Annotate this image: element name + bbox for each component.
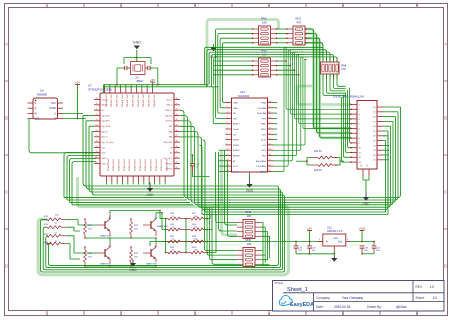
svg-text:GND: GND	[261, 103, 266, 105]
U9 wire left going down to bus	[28, 119, 41, 153]
U10 left pins lower wires joining verticals	[219, 149, 226, 151]
svg-text:31: 31	[176, 103, 178, 105]
highlighted net top-left route	[207, 20, 279, 87]
svg-text:1.0: 1.0	[430, 285, 435, 289]
svg-text:3: 3	[227, 112, 228, 114]
highlighted net loop left riser	[78, 177, 81, 207]
svg-text:26: 26	[361, 165, 363, 167]
svg-text:+3V3: +3V3	[359, 226, 366, 230]
RN8 bottom wires	[323, 74, 346, 96]
capacitor C18 104	[295, 242, 297, 246]
svg-text:CAN_Tx: CAN_Tx	[165, 109, 173, 112]
svg-text:26: 26	[269, 112, 271, 114]
svg-text:6: 6	[227, 127, 228, 129]
svg-text:Your Company: Your Company	[342, 296, 363, 300]
svg-text:10K: 10K	[247, 214, 252, 218]
chip U10 SJA1000 body	[232, 98, 268, 172]
svg-text:A: A	[444, 42, 447, 47]
svg-text:OSC_IN/PD01: OSC_IN/PD01	[147, 95, 149, 109]
capacitor C15 left of crystal	[124, 66, 126, 70]
svg-text:27: 27	[269, 106, 271, 108]
svg-text:MMBT5551: MMBT5551	[157, 226, 169, 228]
svg-text:17: 17	[269, 159, 271, 161]
svg-text:CLK: CLK	[262, 134, 267, 136]
svg-text:47K: 47K	[297, 21, 302, 25]
grid interconnect verticals	[185, 219, 187, 253]
svg-text:MOD0: MOD0	[233, 124, 240, 126]
svg-text:VOUT1/PB02: VOUT1/PB02	[106, 159, 108, 172]
svg-text:VOUT1/PB02: VOUT1/PB02	[144, 159, 146, 172]
svg-text:OSC_IN/PD01: OSC_IN/PD01	[136, 95, 138, 109]
RN5 right pin wires down to loop	[261, 223, 263, 266]
svg-text:STM32F103C8T6: STM32F103C8T6	[88, 88, 112, 92]
svg-text:9: 9	[227, 143, 228, 145]
svg-text:12: 12	[96, 108, 98, 110]
svg-text:MOD2: MOD2	[233, 145, 240, 147]
transistor area junction dots	[84, 218, 86, 220]
svg-text:Spi_MOSI: Spi_MOSI	[102, 126, 112, 128]
U10 left pins	[226, 102, 232, 104]
svg-text:Spi_MSO: Spi_MSO	[102, 121, 111, 123]
svg-text:CAN_RST: CAN_RST	[163, 141, 173, 144]
svg-text:OSC_IN/PD01: OSC_IN/PD01	[110, 95, 112, 109]
svg-text:20: 20	[269, 143, 271, 145]
svg-text:LIN_Rx: LIN_Rx	[102, 99, 109, 101]
wire bus center horizontal bundle	[83, 115, 94, 117]
D-SUB right pin wires to bundle	[383, 106, 401, 108]
crystal X2 body	[131, 62, 146, 75]
resistor R24 2K2 vertical	[84, 250, 87, 262]
svg-text:23: 23	[269, 127, 271, 129]
svg-text:18: 18	[269, 154, 271, 156]
svg-text:GND: GND	[246, 189, 254, 193]
capacitor C16 right of crystal	[147, 66, 149, 70]
transistor Q1 MMBT5551	[104, 221, 106, 229]
resistor R21 2K2 vertical	[84, 222, 87, 234]
svg-text:18: 18	[96, 140, 98, 142]
chip U9 M95080 body	[33, 98, 58, 119]
RN1 right wires going down	[306, 29, 314, 42]
svg-text:24: 24	[269, 122, 271, 124]
svg-text:1/1: 1/1	[433, 296, 438, 300]
svg-text:Vcc1: Vcc1	[233, 166, 239, 168]
svg-text:11: 11	[96, 103, 98, 105]
svg-text:TxD: TxD	[102, 147, 106, 149]
svg-text:35: 35	[176, 124, 178, 126]
capacitor C19 10u	[361, 242, 363, 246]
svg-text:STU: STU	[262, 150, 267, 152]
svg-text:41: 41	[176, 156, 178, 158]
wire bus lines from U7 right side going down and right	[180, 107, 401, 198]
D-SUB left pins 1-13	[351, 104, 357, 106]
svg-text:A: A	[5, 42, 8, 47]
svg-text:MOD1: MOD1	[233, 140, 240, 142]
frame column ticks top/bottom	[46, 4, 48, 8]
svg-text:R11 40: R11 40	[314, 150, 322, 153]
RN6 left pin wires from bundle	[205, 208, 238, 251]
svg-text:15: 15	[96, 124, 98, 126]
wire D-SUB right rows 7-8 to bundle	[203, 140, 386, 212]
svg-text:42: 42	[176, 162, 178, 164]
svg-text:Drawn By:: Drawn By:	[367, 305, 382, 309]
power flag +5V near U7 top	[150, 81, 155, 83]
grid left wires to transistor collectors	[160, 211, 166, 219]
svg-text:VCC: VCC	[51, 102, 56, 105]
svg-text:11: 11	[227, 154, 229, 156]
svg-text:40: 40	[176, 151, 178, 153]
feeder verticals from horizontals down to D-SUB upper rows	[285, 47, 351, 109]
U7 top pins	[104, 88, 106, 94]
R11 R12 connection wires	[307, 158, 311, 162]
svg-text:D: D	[54, 118, 56, 121]
wire verticals x218-225 companions	[218, 152, 220, 228]
svg-text:RN8: RN8	[341, 64, 347, 68]
op chip U7 STM32F103C8T6 body	[100, 93, 174, 176]
gnd below U7	[149, 182, 151, 184]
svg-text:B: B	[5, 116, 8, 121]
svg-text:D-SUB_25PIN_FEMALE_RA: D-SUB_25PIN_FEMALE_RA	[333, 96, 364, 99]
svg-text:C: C	[5, 190, 8, 195]
U7 bottom pin wires down	[106, 182, 108, 185]
svg-text:MMBT5551: MMBT5551	[100, 264, 112, 266]
svg-text:RxD: RxD	[102, 153, 106, 155]
U7 right pins	[174, 99, 180, 101]
svg-text:RxDCAN: RxDCAN	[257, 112, 266, 115]
svg-text:Date:: Date:	[316, 305, 324, 309]
svg-text:Out: Out	[338, 241, 342, 244]
svg-text:5: 5	[227, 122, 228, 124]
svg-text:22: 22	[269, 133, 271, 135]
gnd below U10	[249, 172, 251, 180]
svg-text:NC: NC	[233, 113, 237, 115]
svg-text:14: 14	[96, 119, 98, 121]
svg-text:GND: GND	[233, 108, 238, 110]
svg-text:VDD_3: VDD_3	[166, 99, 173, 101]
svg-text:VSS: VSS	[35, 118, 40, 121]
svg-text:ADC A: ADC A	[102, 104, 109, 107]
U10 right pins	[268, 102, 274, 104]
collector wires up	[109, 238, 111, 243]
svg-text:RCI: RCI	[262, 156, 266, 158]
svg-text:37: 37	[176, 135, 178, 137]
svg-text:10K: 10K	[262, 21, 267, 25]
green wires along pale bundle to D-SUB	[314, 42, 352, 128]
svg-text:25: 25	[269, 117, 271, 119]
wire horizontal y152.8 left	[40, 152, 94, 154]
svg-text:SJA1000: SJA1000	[238, 94, 250, 98]
regulator gnd rail	[295, 253, 297, 254]
svg-text:38: 38	[176, 140, 178, 142]
svg-text:10: 10	[96, 98, 98, 100]
svg-text:D: D	[444, 264, 447, 269]
svg-text:47K: 47K	[341, 67, 346, 71]
svg-text:RDC: RDC	[261, 129, 266, 131]
highlighted net big loop bottom	[38, 207, 288, 275]
svg-text:GND: GND	[333, 238, 338, 240]
capacitor C21 104	[373, 242, 375, 246]
RN2 left wires	[216, 29, 253, 87]
power flag +3V3	[360, 230, 365, 232]
svg-text:43: 43	[176, 167, 178, 169]
svg-text:OSC_IN/PD01: OSC_IN/PD01	[152, 95, 154, 109]
svg-text:GND: GND	[362, 202, 370, 206]
svg-text:20: 20	[96, 151, 98, 153]
svg-text:4: 4	[227, 117, 228, 119]
svg-text:EasyEDA: EasyEDA	[290, 302, 314, 308]
svg-text:Spi_SCK: Spi_SCK	[102, 115, 111, 117]
U10 right short stubs upper rows	[274, 102, 278, 104]
wire left bus corners up from bus to U9 region	[64, 153, 108, 198]
svg-text:15: 15	[269, 170, 271, 172]
U7 bottom pins	[106, 176, 108, 182]
U9 left pins	[28, 102, 34, 104]
svg-text:Q: Q	[35, 107, 37, 110]
frame row ticks left/right	[5, 80, 9, 82]
svg-text:OSC_IN/PD01: OSC_IN/PD01	[126, 95, 128, 109]
svg-text:1: 1	[227, 101, 228, 103]
power flag +5V near U9	[75, 84, 80, 86]
gnd near RN2 left	[213, 44, 215, 47]
svg-text:GND3: GND3	[260, 171, 267, 173]
svg-text:VOUT1/PB02: VOUT1/PB02	[149, 159, 151, 172]
svg-text:VOUT1/PB02: VOUT1/PB02	[154, 159, 156, 172]
svg-text:X2: X2	[135, 76, 139, 80]
svg-text:10: 10	[227, 149, 229, 151]
svg-text:TITLE:: TITLE:	[275, 281, 284, 285]
svg-text:VOUT1/PB02: VOUT1/PB02	[133, 159, 135, 172]
svg-text:36: 36	[176, 130, 178, 132]
svg-text:WRC: WRC	[261, 124, 267, 126]
svg-text:GND: GND	[133, 41, 141, 45]
svg-text:19: 19	[96, 146, 98, 148]
svg-text:OSC_IN/PD01: OSC_IN/PD01	[115, 95, 117, 109]
svg-text:30: 30	[176, 98, 178, 100]
transistor Q2 MMBT5551	[150, 249, 152, 257]
D-SUB shield pins to gnd	[362, 169, 364, 176]
svg-text:LIN: LIN	[233, 118, 237, 120]
highlighted net vertical mid x222	[222, 150, 238, 235]
transistor Q3 MMBT5551	[150, 221, 152, 229]
svg-text:7: 7	[227, 133, 228, 135]
svg-text:DOO: DOO	[261, 140, 266, 142]
svg-text:16: 16	[96, 130, 98, 132]
U7 left pins	[94, 99, 100, 101]
power flag +5V regulator	[307, 230, 312, 232]
svg-text:+5V: +5V	[150, 78, 155, 82]
svg-text:B: B	[444, 116, 447, 121]
svg-text:10K: 10K	[247, 242, 252, 246]
svg-text:21: 21	[96, 156, 98, 158]
emitter gnd rail	[85, 237, 156, 239]
svg-text:16: 16	[269, 165, 271, 167]
svg-text:AMS1117-3.3: AMS1117-3.3	[327, 229, 343, 233]
svg-text:Company:: Company:	[316, 296, 331, 300]
svg-text:ADC R: ADC R	[102, 136, 109, 139]
svg-text:FSO: FSO	[262, 118, 267, 120]
svg-text:R12 40: R12 40	[314, 169, 322, 172]
resistor R23 2K2 vertical	[130, 250, 133, 262]
U10 right pin risers going up	[274, 47, 305, 171]
RN5 left pin wires	[216, 152, 237, 223]
highlighted net bundle RN1 to D-SUB	[306, 29, 351, 128]
svg-text:VOUT1/PB02: VOUT1/PB02	[112, 159, 114, 172]
svg-text:22: 22	[96, 162, 98, 164]
svg-text:VSS_3: VSS_3	[166, 105, 173, 107]
svg-text:33: 33	[176, 114, 178, 116]
svg-text:OSC_IN/PD01: OSC_IN/PD01	[120, 95, 122, 109]
svg-text:VOUT1/PB02: VOUT1/PB02	[128, 159, 130, 172]
transistor Q4 MMBT5551	[104, 249, 106, 257]
RN8 top wires and long horizontals	[205, 47, 324, 84]
EasyEDA logo	[279, 295, 314, 307]
D-SUB right pins 14-25	[377, 106, 383, 108]
crystal wires	[117, 68, 121, 85]
wires R25-R28 to bases	[66, 219, 97, 225]
svg-text:C: C	[54, 112, 56, 115]
wire RN1 row4 down joins bundle	[306, 43, 323, 58]
svg-text:17: 17	[96, 135, 98, 137]
svg-text:VOUT1/PB02: VOUT1/PB02	[165, 159, 167, 172]
svg-text:MMBT5551: MMBT5551	[146, 264, 158, 266]
RN3 left wires	[213, 60, 253, 62]
svg-text:13: 13	[96, 114, 98, 116]
svg-text:OSC_IN/PD01: OSC_IN/PD01	[131, 95, 133, 109]
svg-text:Spi_CS_mem: Spi_CS_mem	[102, 142, 115, 144]
svg-text:VOUT1/PB02: VOUT1/PB02	[138, 159, 140, 172]
svg-text:2020-02-04: 2020-02-04	[334, 305, 351, 309]
svg-text:HOLD: HOLD	[49, 107, 56, 110]
wire mid horizontal y241.5 to regulator	[150, 241, 323, 243]
svg-text:2: 2	[227, 106, 228, 108]
highlighted wire into D-SUB row 1	[296, 85, 314, 88]
svg-text:+5V: +5V	[75, 80, 80, 84]
svg-text:34: 34	[176, 119, 178, 121]
svg-text:GO: GO	[263, 145, 267, 147]
capacitor C20 10u	[309, 242, 311, 246]
svg-text:VOUT1/PB02: VOUT1/PB02	[160, 159, 162, 172]
svg-text:GND: GND	[233, 103, 238, 105]
svg-text:Vcc2: Vcc2	[233, 171, 239, 173]
svg-text:39: 39	[176, 146, 178, 148]
capacitor C17 near U10	[192, 155, 194, 163]
RN6 right pin wires down to loop	[261, 250, 263, 252]
RN3 right wires join feeder verticals	[277, 60, 287, 62]
svg-text:28: 28	[269, 101, 271, 103]
svg-text:MOD3: MOD3	[233, 150, 240, 152]
svg-text:TxDCAN1: TxDCAN1	[256, 165, 267, 168]
svg-text:BOOT0: BOOT0	[166, 121, 174, 123]
svg-text:U12: U12	[327, 226, 332, 230]
svg-text:REV:: REV:	[416, 285, 423, 289]
svg-text:21: 21	[269, 138, 271, 140]
svg-text:CanS: CanS	[233, 129, 239, 131]
svg-text:8: 8	[227, 138, 228, 140]
svg-text:M95080: M95080	[37, 93, 48, 97]
resistor R22 2K2 vertical	[130, 222, 133, 234]
U9 right pins	[58, 102, 64, 104]
svg-text:VOUT1/PB02: VOUT1/PB02	[122, 159, 124, 172]
svg-text:TxDCAN: TxDCAN	[257, 107, 266, 110]
svg-text:19: 19	[269, 149, 271, 151]
svg-text:CAN_Rx: CAN_Rx	[165, 114, 173, 117]
svg-text:32: 32	[176, 108, 178, 110]
svg-text:Sheet:: Sheet:	[416, 296, 425, 300]
svg-text:GND: GND	[129, 268, 137, 272]
svg-text:GND: GND	[146, 193, 154, 197]
svg-text:RxDCAN1: RxDCAN1	[256, 160, 267, 163]
U9 pin1 dot	[35, 100, 37, 102]
regulator output wire	[351, 241, 375, 243]
svg-text:27: 27	[367, 165, 369, 167]
title block outline	[273, 281, 445, 312]
svg-text:MODR: MODR	[233, 156, 240, 158]
D-SUB left pin wires lower rows	[350, 88, 352, 143]
RN2-RN1 interconnect wires	[277, 28, 288, 30]
svg-text:Sheet_1: Sheet_1	[287, 287, 308, 293]
U10 left pin wires	[222, 87, 225, 103]
svg-text:VOUT1/PB02: VOUT1/PB02	[117, 159, 119, 172]
svg-text:8MHz: 8MHz	[137, 79, 144, 83]
svg-text:OSC_IN/PD01: OSC_IN/PD01	[142, 95, 144, 109]
svg-text:D: D	[5, 264, 8, 269]
svg-text:C: C	[444, 190, 447, 195]
svg-text:cj04vsv: cj04vsv	[396, 305, 407, 309]
svg-text:+5V: +5V	[307, 226, 312, 230]
svg-text:ADC B: ADC B	[102, 130, 109, 133]
